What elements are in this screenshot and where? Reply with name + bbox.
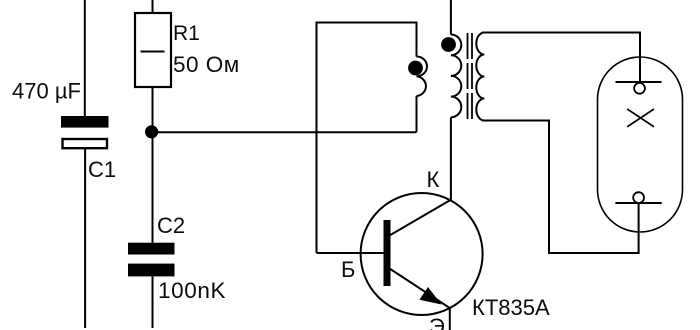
svg-text:Э: Э [429,314,445,330]
wire: primary top lead [450,0,452,35]
feedback winding bumps [417,57,428,97]
lamp top electrode bar [616,81,662,83]
svg-text:КТ835А: КТ835А [472,295,550,320]
transformer secondary winding (4 bumps) [476,33,484,121]
svg-text:470 µF: 470 µF [12,79,81,104]
transformer core line 2 [471,33,473,121]
wire: below C1 to bottom edge [84,149,86,328]
transistor base bar [384,220,391,286]
wire: base lead [317,252,385,254]
wire: R1 top lead [152,0,154,14]
svg-text:C2: C2 [157,213,185,238]
emitter arrowhead [420,287,442,305]
resistor R1 power mark [141,51,165,53]
capacitor C1 (polarized) top plate [61,116,109,128]
lamp EL1 envelope [598,57,683,232]
svg-text:Б: Б [341,257,355,282]
wire: left supply rail top (to C1) [84,0,86,117]
wire: bus from junction to feedback winding [152,131,417,133]
transformer primary winding (4 bumps) [451,35,461,118]
junction dot [145,125,158,138]
svg-text:50 Ом: 50 Ом [173,52,240,77]
wire: secondary top to lamp [482,33,640,84]
lamp bottom electrode circle [633,192,644,203]
transformer core line 1 [467,33,469,121]
svg-text:R1: R1 [173,22,200,45]
capacitor C2 bottom plate [128,264,175,277]
capacitor C2 top plate [128,243,175,255]
wire: primary bottom lead to collector [450,117,452,200]
feedback winding L3 with leads (right leg of feedback loop) [317,23,417,254]
resistor R1 body [135,13,171,87]
svg-text:C1: C1 [88,157,116,182]
phase dot (primary) [441,37,456,52]
lamp top electrode circle [634,83,645,94]
phase dot (feedback winding) [408,61,423,76]
transistor VT1 circle [361,193,483,315]
transistor emitter line [390,269,450,330]
svg-text:100nK: 100nK [158,278,226,303]
wire: R1 bottom lead through junction to C2 [152,87,154,243]
lamp cross mark [627,109,654,127]
lamp bottom electrode bar [615,202,661,204]
svg-text:К: К [427,167,440,192]
wire: below C2 to bottom edge [152,276,154,328]
transistor collector line [390,200,451,235]
capacitor C1 bottom plate [63,139,108,148]
wire: secondary bottom to lamp [482,121,639,254]
